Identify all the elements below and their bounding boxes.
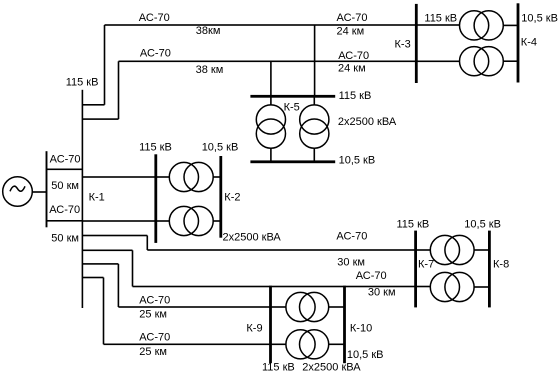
svg-text:АС-70: АС-70 bbox=[139, 12, 170, 24]
svg-text:К-5: К-5 bbox=[284, 101, 300, 113]
svg-text:К-3: К-3 bbox=[395, 39, 411, 51]
svg-text:50 км: 50 км bbox=[51, 180, 79, 192]
svg-text:38км: 38км bbox=[196, 25, 221, 37]
svg-text:115 кВ: 115 кВ bbox=[262, 361, 295, 373]
svg-text:10,5 кВ: 10,5 кВ bbox=[339, 155, 376, 167]
svg-text:К-4: К-4 bbox=[521, 37, 537, 49]
svg-text:115 кВ: 115 кВ bbox=[424, 12, 457, 24]
svg-text:АС-70: АС-70 bbox=[139, 331, 170, 343]
svg-text:24 км: 24 км bbox=[338, 62, 366, 74]
svg-text:115 кВ: 115 кВ bbox=[66, 77, 99, 89]
svg-text:30 км: 30 км bbox=[368, 286, 396, 298]
svg-text:АС-70: АС-70 bbox=[50, 154, 81, 166]
svg-text:50 км: 50 км bbox=[51, 232, 79, 244]
svg-text:2х2500 кВА: 2х2500 кВА bbox=[302, 361, 361, 373]
svg-text:АС-70: АС-70 bbox=[337, 12, 368, 24]
svg-text:10,5 кВ: 10,5 кВ bbox=[347, 349, 384, 361]
svg-text:К-2: К-2 bbox=[224, 192, 240, 204]
svg-text:30 км: 30 км bbox=[337, 257, 365, 269]
svg-text:10,5 кВ: 10,5 кВ bbox=[521, 12, 558, 24]
svg-text:АС-70: АС-70 bbox=[49, 204, 80, 216]
svg-text:К-1: К-1 bbox=[89, 192, 105, 204]
svg-text:2х2500 кВА: 2х2500 кВА bbox=[338, 116, 397, 128]
svg-text:10,5 кВ: 10,5 кВ bbox=[202, 141, 239, 153]
svg-text:25 км: 25 км bbox=[139, 346, 167, 358]
svg-text:АС-70: АС-70 bbox=[139, 294, 170, 306]
svg-text:К-9: К-9 bbox=[246, 323, 262, 335]
svg-text:АС-70: АС-70 bbox=[356, 270, 387, 282]
svg-text:К-8: К-8 bbox=[493, 259, 509, 271]
svg-text:24 км: 24 км bbox=[337, 25, 365, 37]
svg-text:К-7: К-7 bbox=[418, 259, 434, 271]
svg-text:АС-70: АС-70 bbox=[140, 48, 171, 60]
svg-text:115 кВ: 115 кВ bbox=[139, 141, 172, 153]
svg-text:115 кВ: 115 кВ bbox=[397, 218, 430, 230]
svg-text:10,5 кВ: 10,5 кВ bbox=[464, 218, 501, 230]
svg-text:38 км: 38 км bbox=[196, 64, 224, 76]
svg-text:115 кВ: 115 кВ bbox=[339, 90, 372, 102]
svg-text:К-10: К-10 bbox=[350, 323, 372, 335]
svg-text:2х2500 кВА: 2х2500 кВА bbox=[223, 232, 282, 244]
svg-text:АС-70: АС-70 bbox=[336, 231, 367, 243]
svg-text:25 км: 25 км bbox=[139, 309, 167, 321]
svg-text:АС-70: АС-70 bbox=[338, 50, 369, 62]
